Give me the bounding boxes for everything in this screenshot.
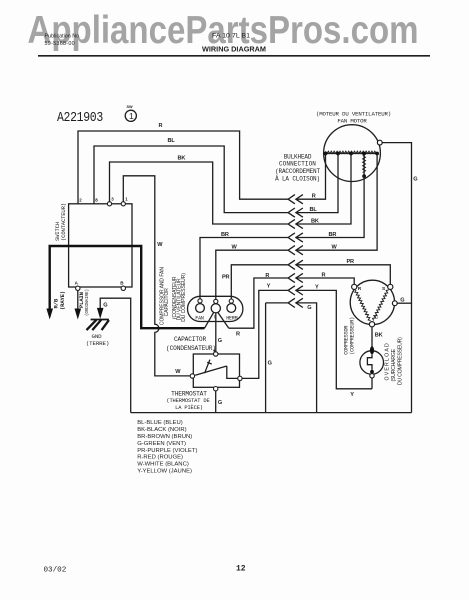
svg-text:A221903: A221903	[57, 109, 103, 125]
wire G compressor case stub	[397, 302, 411, 304]
compressor windings	[355, 290, 371, 321]
wire R to compressor R	[296, 278, 354, 284]
svg-text:DU COMPRESSEUR): DU COMPRESSEUR)	[397, 337, 403, 385]
header rule	[38, 55, 430, 57]
svg-text:PR-PURPLE (VIOLET): PR-PURPLE (VIOLET)	[137, 448, 197, 454]
wire BR to fan coil tap	[296, 176, 364, 237]
wire BK compressor C to overload	[371, 327, 373, 350]
capacitor C1 body	[188, 296, 243, 321]
thermostat bimetal	[205, 360, 212, 374]
svg-text:FAN MOTOR: FAN MOTOR	[337, 118, 367, 125]
compressor M2	[350, 280, 394, 324]
thermostat right terminal	[238, 376, 242, 380]
svg-text:G-GREEN (VENT): G-GREEN (VENT)	[137, 441, 186, 447]
svg-text:OVERLOAD: OVERLOAD	[385, 342, 391, 380]
svg-text:Y: Y	[315, 285, 319, 291]
svg-text:(CONTACTEUR): (CONTACTEUR)	[60, 203, 67, 241]
overload bottom contact	[370, 370, 374, 374]
wire BK from switch pin 3	[110, 162, 289, 224]
wire G fan case to compressor case	[382, 143, 411, 413]
wire G bulkhead to chassis rail	[266, 303, 289, 413]
pin B terminal	[121, 286, 125, 290]
wire BK to fan tap3	[296, 154, 351, 225]
overload top contact	[370, 346, 374, 354]
wire overload to Y	[371, 378, 373, 389]
svg-text:W: W	[157, 242, 163, 248]
chassis ground rail	[131, 412, 412, 414]
svg-text:BULKHEAD: BULKHEAD	[284, 153, 312, 160]
svg-text:SW: SW	[127, 105, 134, 109]
fan motor M1	[324, 125, 381, 182]
compressor case terminal	[392, 301, 397, 306]
heavy power wire R/B to capacitor C	[50, 246, 205, 328]
wire W capacitor C to bulkhead	[216, 250, 288, 299]
svg-text:CAPACITOR: CAPACITOR	[174, 336, 207, 343]
overload protector	[360, 351, 384, 375]
svg-text:(ORDINAIRE): (ORDINAIRE)	[85, 289, 90, 316]
wire G to chassis rail	[296, 303, 317, 413]
pin 1 terminal	[121, 202, 125, 206]
thermostat switch blade	[195, 366, 238, 378]
svg-text:HERM: HERM	[226, 315, 237, 321]
svg-text:WIRING DIAGRAM: WIRING DIAGRAM	[202, 44, 266, 53]
svg-text:1: 1	[129, 111, 134, 121]
wire G thermostat to rail	[215, 391, 217, 413]
svg-text:BL: BL	[310, 207, 318, 213]
arrow PLAIN cord	[75, 309, 82, 320]
wire PLAIN from switch pin A	[77, 291, 79, 311]
compressor S terminal	[388, 284, 393, 289]
wire capacitor C diagonals	[205, 313, 229, 329]
capacitor C terminal	[211, 304, 220, 313]
leader line	[214, 350, 216, 353]
svg-text:G: G	[268, 361, 272, 367]
svg-text:DU COMPRESSEUR): DU COMPRESSEUR)	[181, 273, 187, 322]
svg-text:Y-YELLOW (JAUNE): Y-YELLOW (JAUNE)	[137, 469, 192, 475]
svg-text:Y: Y	[350, 392, 354, 398]
svg-text:THERMOSTAT: THERMOSTAT	[171, 390, 207, 397]
arrow G to ground	[97, 308, 104, 319]
label COMPRESSOR AND FAN CAPACITOR vertical	[159, 267, 187, 325]
switch SW1 box	[69, 204, 132, 287]
svg-text:Publication No.: Publication No.	[45, 34, 81, 40]
wire G to ground	[100, 298, 131, 412]
svg-text:R: R	[236, 331, 240, 337]
pin 3 terminal	[107, 202, 111, 206]
compressor C terminal	[369, 322, 374, 327]
wire R capacitor to bulkhead	[229, 278, 288, 328]
svg-text:R: R	[159, 123, 163, 129]
fan winding vertical coil	[363, 154, 365, 177]
thermostat box	[193, 354, 239, 387]
svg-text:03/02: 03/02	[44, 567, 67, 575]
svg-text:G: G	[218, 400, 222, 406]
svg-text:Y: Y	[267, 284, 271, 290]
svg-text:FA 10 7L B1: FA 10 7L B1	[212, 33, 251, 40]
fan winding line	[326, 153, 378, 155]
svg-text:R: R	[265, 273, 269, 279]
ground symbol	[87, 320, 109, 331]
wire Y thermostat to bulkhead	[242, 290, 288, 378]
legend wire colour code	[137, 420, 197, 474]
svg-text:BK-BLACK (NOIR): BK-BLACK (NOIR)	[137, 427, 186, 433]
thermostat left terminal	[190, 374, 194, 378]
svg-text:PR: PR	[222, 274, 230, 280]
svg-text:R: R	[322, 272, 326, 278]
svg-text:(RACCORDEMENT: (RACCORDEMENT	[275, 168, 320, 175]
svg-text:(TERRE): (TERRE)	[86, 340, 109, 347]
svg-text:G: G	[400, 297, 404, 303]
svg-text:BR: BR	[221, 232, 229, 238]
svg-text:BR-BROWN (BRUN): BR-BROWN (BRUN)	[137, 434, 192, 440]
svg-text:59-5368-00: 59-5368-00	[45, 41, 75, 47]
svg-text:BK: BK	[178, 156, 186, 162]
wire R from switch pin 2 to bulkhead	[78, 131, 288, 204]
wire PR to compressor S	[296, 265, 390, 285]
fan winding taps	[324, 152, 379, 178]
svg-text:R: R	[312, 193, 316, 199]
svg-text:R: R	[358, 286, 362, 292]
overload element	[367, 354, 372, 370]
wire W from switch pin 1 to thermostat	[123, 176, 190, 376]
svg-text:BR: BR	[329, 232, 337, 238]
overload bottom terminal	[370, 374, 374, 378]
svg-text:(THERMOSTAT DE: (THERMOSTAT DE	[166, 398, 209, 404]
svg-text:(RAYE): (RAYE)	[59, 291, 66, 310]
svg-text:G: G	[307, 305, 311, 311]
svg-text:G: G	[413, 177, 417, 183]
svg-text:(COMPRESSEUR): (COMPRESSEUR)	[350, 317, 356, 355]
svg-text:R-RED (ROUGE): R-RED (ROUGE)	[137, 455, 183, 461]
wire PR capacitor HERM to bulkhead	[231, 265, 288, 299]
wire R bulkhead to fan tap1	[296, 154, 326, 200]
wire W to fan tap5	[296, 154, 377, 251]
svg-text:(CONDENSATEUR): (CONDENSATEUR)	[166, 345, 216, 352]
capacitor FAN terminal	[196, 304, 205, 313]
svg-text:LA PIÈCE): LA PIÈCE)	[175, 404, 203, 411]
wire Y to overload	[296, 290, 372, 388]
wire BL to fan tap2	[296, 154, 338, 213]
wire BL from switch pin 8	[94, 146, 288, 213]
svg-text:(SURCHARGE: (SURCHARGE	[391, 348, 397, 381]
svg-text:PR: PR	[347, 259, 355, 265]
capacitor HERM terminal	[227, 304, 236, 313]
bulkhead connectors column	[288, 195, 303, 308]
wire G capacitor C to thermostat	[215, 313, 217, 352]
svg-text:W: W	[175, 369, 181, 375]
svg-text:12: 12	[236, 565, 246, 574]
thermostat bottom terminal	[214, 387, 218, 391]
circled 1 symbol	[125, 110, 136, 121]
thermostat top terminal	[214, 352, 218, 356]
svg-text:FAN: FAN	[195, 315, 204, 321]
compressor R terminal	[352, 284, 357, 289]
svg-text:CONNECTION: CONNECTION	[279, 160, 316, 167]
svg-text:W-WHITE (BLANC): W-WHITE (BLANC)	[137, 462, 189, 468]
fan case terminal	[377, 140, 382, 145]
svg-text:G: G	[218, 338, 222, 344]
svg-text:(MOTEUR DU VENTILATEUR): (MOTEUR DU VENTILATEUR)	[316, 110, 391, 117]
arrow R/B cord	[46, 309, 53, 320]
label OVERLOAD (SURCHARGE DU COMPRESSEUR)	[385, 337, 404, 385]
svg-text:BK: BK	[375, 332, 383, 338]
svg-text:G: G	[103, 303, 107, 309]
svg-text:CAPACITOR: CAPACITOR	[164, 288, 170, 317]
svg-text:BL: BL	[168, 138, 176, 144]
svg-text:À LA CLOISON): À LA CLOISON)	[275, 176, 320, 183]
svg-text:BK: BK	[311, 218, 319, 224]
svg-text:BL-BLUE (BLEU): BL-BLUE (BLEU)	[137, 420, 183, 426]
pin A terminal	[76, 286, 80, 290]
wire BR capacitor FAN to bulkhead	[200, 238, 288, 300]
